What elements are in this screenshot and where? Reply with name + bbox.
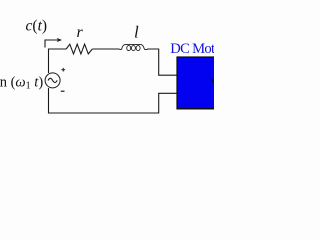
AC source minus polarity <box>61 90 65 92</box>
DC Motor block <box>177 57 222 108</box>
svg-text:r: r <box>77 24 84 41</box>
current arrow c(t) <box>45 40 59 48</box>
current arrowhead <box>57 38 62 42</box>
svg-text:n (ω1 t): n (ω1 t) <box>0 74 43 91</box>
svg-text:DC Motor: DC Motor <box>170 41 214 57</box>
AC source V1 circle <box>45 73 60 88</box>
inductor l <box>120 44 147 50</box>
wire inductor to right corner down to motor top port <box>146 49 176 75</box>
svg-text:c(t): c(t) <box>26 18 48 35</box>
svg-text:l: l <box>134 23 139 42</box>
wire between resistor and inductor <box>92 48 119 50</box>
resistor r <box>66 44 92 54</box>
DC Motor block right port mark <box>212 79 215 83</box>
AC source sine symbol <box>48 78 57 82</box>
wire motor bottom port to bottom rail to source bottom <box>49 88 177 113</box>
wire left rail top (source top to corner to resistor) <box>49 49 67 73</box>
AC source plus polarity <box>61 68 65 72</box>
